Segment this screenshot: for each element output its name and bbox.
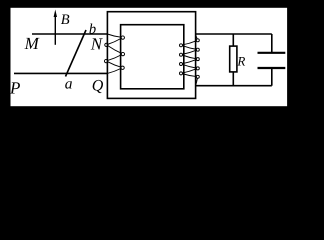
svg-text:N: N xyxy=(90,35,104,54)
svg-text:P: P xyxy=(9,78,20,97)
svg-text:M: M xyxy=(24,34,40,53)
svg-text:R: R xyxy=(236,54,245,69)
svg-text:B: B xyxy=(61,12,70,28)
svg-text:Q: Q xyxy=(92,77,104,94)
svg-text:a: a xyxy=(65,76,73,93)
